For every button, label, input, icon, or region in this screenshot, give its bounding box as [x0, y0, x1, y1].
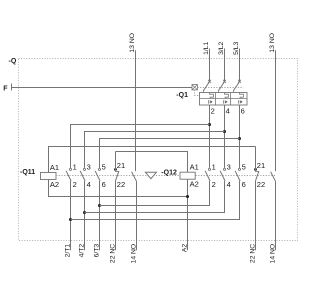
svg-text:13 NO: 13 NO [269, 33, 276, 53]
node junction Q1-2 [208, 123, 211, 126]
mechanical interlock triangle [145, 172, 156, 178]
wire Q12 out2 to T3 [100, 181, 210, 206]
breaker Q1 thermal element pole 3 [240, 93, 244, 99]
contactor linkage dashed Q11 [56, 175, 180, 177]
wire Q12 out6 to T1 [71, 181, 240, 220]
svg-text:1: 1 [212, 162, 216, 171]
svg-text:2: 2 [212, 180, 216, 189]
breaker Q1 magnetic trip I> pole 3 [239, 100, 243, 103]
svg-text:1/L1: 1/L1 [203, 41, 210, 54]
wire Q1 out2 to Q12 pole1 vertical [209, 105, 211, 168]
contactor Q11 pole 1 contact [66, 168, 71, 181]
wire Q1-4 to Q11 pole2 [85, 132, 225, 168]
svg-text:6: 6 [241, 107, 245, 116]
wire Q12 22 NC vertical [255, 181, 257, 250]
wire Q12 coil A2 down [187, 179, 189, 250]
svg-text:5/L3: 5/L3 [233, 41, 240, 54]
node junction A2 [186, 195, 189, 198]
contactor Q12 aux NO 13/14 contact [271, 172, 276, 182]
breaker Q1 pole 1 contact [203, 80, 211, 93]
breaker Q1 manual operator square [192, 85, 197, 90]
svg-text:2: 2 [211, 107, 215, 116]
node junction T3 [98, 204, 101, 207]
svg-text:13 NO: 13 NO [129, 33, 136, 53]
breaker Q1 pole 3 contact [233, 80, 241, 93]
wire Q11 T3 vertical [99, 181, 101, 250]
wire Q1 out4 to Q12 pole2 vertical [224, 105, 226, 168]
contactor Q12 pole 3 contact [235, 168, 240, 181]
wire Q12 14 NO vertical [275, 181, 277, 250]
svg-text:6/T3: 6/T3 [94, 244, 101, 258]
contactor Q12 pole 2 contact [220, 168, 225, 181]
contactor Q11 aux NC 21/22 contact [115, 168, 119, 181]
svg-text:F: F [3, 85, 8, 92]
breaker Q1 thermal element pole 1 [210, 93, 214, 99]
wire Q1 out6 to Q12 pole3 vertical [239, 105, 241, 168]
svg-text:14 NO: 14 NO [131, 244, 138, 264]
svg-text:A1: A1 [50, 163, 59, 172]
svg-text:5: 5 [242, 162, 246, 171]
svg-text:-Q12: -Q12 [161, 170, 177, 177]
wire Q12-21 to Q11 coil A1 [49, 147, 256, 173]
svg-text:4/T2: 4/T2 [79, 244, 86, 258]
contactor Q12 coil [180, 172, 195, 179]
node junction T1 [69, 218, 72, 221]
svg-text:21: 21 [117, 161, 125, 170]
node junction Q1-4 [223, 130, 226, 133]
svg-text:6: 6 [102, 180, 106, 189]
contactor Q11 pole 3 contact [95, 168, 100, 181]
wire 5/L3 lead [239, 49, 241, 82]
breaker Q1 magnetic trip I> pole 2 [224, 100, 228, 103]
wire Q11 T1 vertical [70, 181, 72, 250]
contactor Q12 aux NC 21/22 contact [255, 168, 259, 181]
contactor Q12 pole 1 contact [205, 168, 210, 181]
svg-text:-Q11: -Q11 [20, 169, 35, 176]
function-block dashed border -Q [19, 59, 298, 241]
node junction Q1-6 [238, 137, 241, 140]
breaker Q1 operator drop link [195, 90, 200, 96]
svg-text:22: 22 [117, 180, 125, 189]
svg-text:22: 22 [257, 180, 265, 189]
wire Q11 22 NC vertical [115, 181, 117, 250]
wire Q1-2 to Q11 pole1 [71, 125, 210, 168]
wire 3/L2 lead [224, 49, 226, 82]
svg-text:6: 6 [242, 180, 246, 189]
svg-text:-Q: -Q [9, 58, 17, 65]
svg-text:A2: A2 [50, 180, 59, 189]
svg-text:21: 21 [257, 161, 265, 170]
svg-text:5: 5 [102, 162, 106, 171]
terminal tick F [11, 84, 13, 91]
svg-text:1: 1 [73, 162, 77, 171]
svg-text:3/L2: 3/L2 [218, 41, 225, 54]
svg-text:22 NC: 22 NC [110, 244, 117, 263]
svg-text:3: 3 [87, 162, 91, 171]
breaker Q1 magnetic trip I> pole 1 [209, 100, 213, 103]
svg-text:14 NO: 14 NO [270, 244, 277, 264]
svg-text:4: 4 [87, 180, 91, 189]
wire Q12 out4 to T2 [85, 181, 225, 213]
node junction T2 [83, 211, 86, 214]
contactor Q11 coil [41, 173, 57, 180]
wire Q12-21 drop [255, 147, 257, 169]
svg-text:2: 2 [73, 180, 77, 189]
contactor Q11 aux NO 13/14 contact [132, 172, 137, 182]
wire 13 NO right vertical [275, 50, 277, 171]
svg-text:22 NC: 22 NC [249, 244, 256, 263]
wire 13 NO left vertical [135, 50, 137, 171]
wire 1/L1 lead [209, 49, 211, 82]
svg-text:-Q1: -Q1 [176, 92, 188, 99]
breaker Q1 overload/trip box [200, 93, 248, 106]
svg-text:2/T1: 2/T1 [65, 244, 72, 258]
wire Q11 14 NO vertical [136, 181, 138, 250]
svg-text:A1: A1 [190, 163, 199, 172]
svg-text:4: 4 [227, 180, 231, 189]
svg-text:4: 4 [226, 107, 230, 116]
node terminal 21 Q11 [114, 168, 117, 171]
breaker Q1 thermal element pole 2 [225, 93, 229, 99]
wire Q11-21 to Q12 coil A1 [116, 152, 188, 173]
svg-text:3: 3 [227, 162, 231, 171]
contactor Q11 pole 2 contact [80, 168, 85, 181]
wire Q11 coil A2 down [49, 180, 188, 197]
wire Q1-6 to Q11 pole3 [100, 139, 240, 168]
svg-text:A2: A2 [190, 179, 199, 188]
wire Q11 T2 vertical [84, 181, 86, 250]
breaker Q1 mechanism dashed link [197, 87, 243, 89]
node terminal 21 Q12 [254, 168, 257, 171]
contactor linkage dashed Q12 [196, 175, 276, 177]
svg-text:A2: A2 [181, 244, 188, 253]
wire Q11-21 drop [115, 152, 117, 169]
wire F trip line [12, 87, 193, 89]
breaker Q1 pole 2 contact [218, 80, 226, 93]
